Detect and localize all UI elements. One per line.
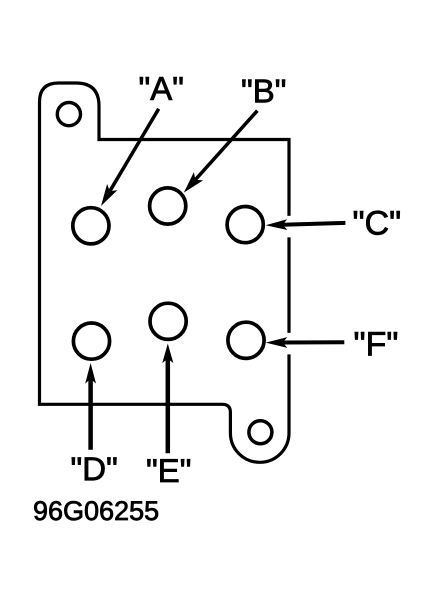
arrow B [184,111,257,193]
arrow C [266,219,346,230]
label "C" [354,211,400,235]
bracket plate outline [40,83,290,462]
hole D [73,323,109,359]
small hole in bottom-right tab [249,421,272,444]
arrow E [162,344,173,454]
hole A [73,208,109,244]
white halo of arrow F crossing right edge [267,333,345,355]
hole C [227,207,263,243]
hole F [228,322,264,358]
label "B" [242,80,285,103]
label "E" [147,459,190,482]
small hole in top-left tab [57,103,80,126]
label "A" [140,77,183,100]
label "F" [355,332,397,355]
arrow D [85,363,96,450]
hole B [150,188,186,224]
arrow F [266,337,345,348]
hole E [150,303,186,339]
arrow A [101,109,159,206]
white halo of arrow C crossing right edge [268,226,346,228]
label "D" [72,458,117,481]
figure number 96G06255 [34,501,158,520]
